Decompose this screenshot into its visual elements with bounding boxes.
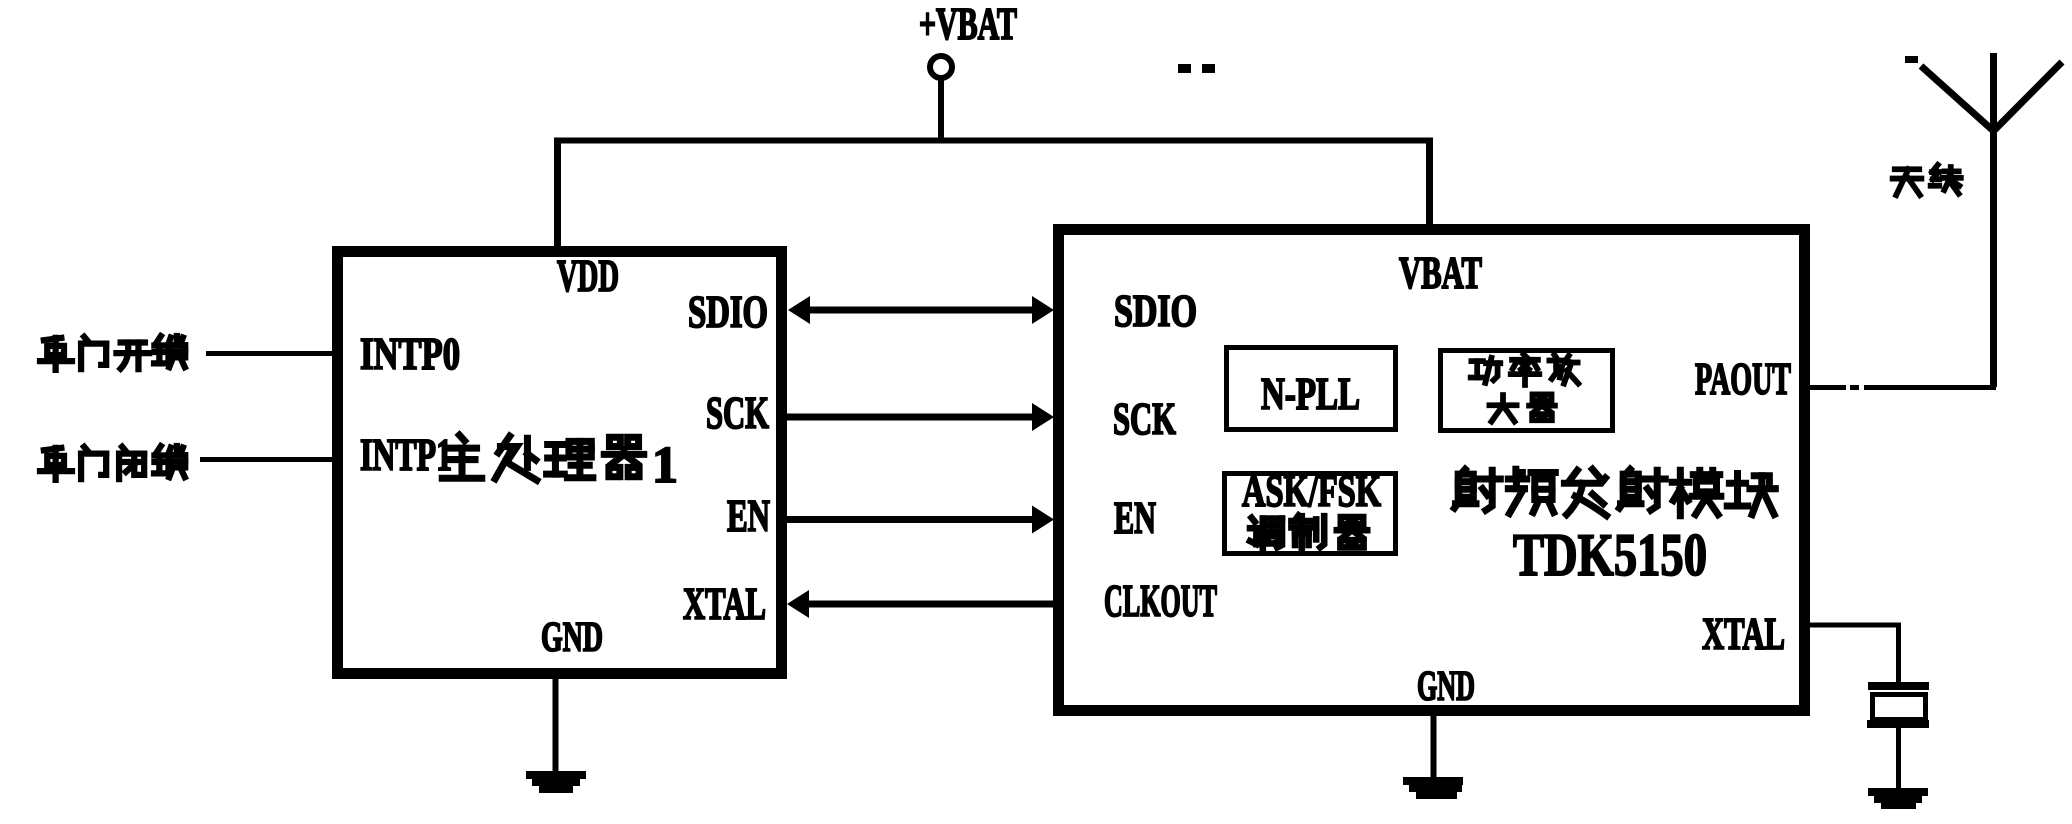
svg-text:+VBAT: +VBAT	[919, 0, 1017, 49]
label 功率放 power amp line1	[1471, 354, 1579, 385]
svg-text:TDK5150: TDK5150	[1513, 522, 1707, 588]
svg-text:PAOUT: PAOUT	[1695, 354, 1791, 404]
block N-PLL box	[1227, 348, 1396, 430]
svg-text:SDIO: SDIO	[1114, 286, 1197, 336]
svg-text:N-PLL: N-PLL	[1261, 369, 1360, 419]
svg-text:SDIO: SDIO	[688, 287, 768, 337]
wire XTAL to crystal	[1810, 623, 1901, 628]
svg-text:EN: EN	[1114, 493, 1156, 543]
svg-text:GND: GND	[1417, 664, 1475, 710]
svg-text:ASK/FSK: ASK/FSK	[1242, 466, 1381, 516]
wire CLKOUT to XTAL arrow	[787, 590, 1053, 618]
label 车门开锁 door unlock	[40, 336, 185, 370]
ground for right box	[1403, 777, 1463, 799]
wire bus right drop to VBAT pin	[1426, 138, 1433, 229]
wire GND left box	[553, 679, 559, 772]
block power amplifier box 功率放大器	[1441, 351, 1613, 431]
wire bus left drop to VDD pin	[554, 138, 561, 250]
title 射频发射模块 RF transmit module	[1454, 469, 1775, 515]
svg-text:XTAL: XTAL	[1702, 609, 1785, 659]
svg-text:GND: GND	[541, 615, 603, 661]
bus SDIO bidirectional arrow	[788, 296, 1054, 324]
wire SCK arrow	[787, 403, 1054, 431]
artifact dashes	[1178, 64, 1191, 73]
svg-text:SCK: SCK	[706, 388, 769, 438]
svg-text:SCK: SCK	[1113, 394, 1176, 444]
artifact dash near antenna	[1905, 56, 1918, 63]
wire door unlock to INTP0	[206, 351, 332, 356]
svg-text:VBAT: VBAT	[1399, 248, 1482, 298]
wire GND right box	[1431, 716, 1437, 778]
svg-text:INTP1: INTP1	[360, 430, 452, 480]
svg-text:EN: EN	[727, 491, 770, 541]
wire PAOUT to antenna	[1810, 385, 1846, 390]
block ASK/FSK modulator box	[1225, 474, 1396, 554]
wire VBAT horizontal bus	[554, 138, 1433, 144]
label 天线 antenna	[1893, 169, 1922, 195]
label 调制器 modulator	[1250, 515, 1367, 549]
module U1 main processor box 主处理器1	[338, 252, 782, 674]
module U2 RF transmit module TDK5150 box	[1059, 230, 1805, 711]
crystal Y1	[1867, 682, 1929, 728]
ground for left box	[526, 771, 586, 793]
svg-text:XTAL: XTAL	[683, 579, 766, 629]
svg-text:INTP0: INTP0	[360, 329, 460, 379]
antenna ANT	[1921, 53, 2062, 387]
wire +VBAT vertical drop	[938, 78, 944, 143]
svg-text:VDD: VDD	[557, 251, 619, 301]
svg-text:CLKOUT: CLKOUT	[1104, 576, 1217, 626]
title 主处理器1 main processor 1	[442, 435, 678, 494]
wire door lock to INTP1	[200, 457, 332, 462]
wire crystal to ground	[1896, 728, 1901, 789]
ground for crystal	[1868, 788, 1928, 809]
label 大器 power amp line2	[1489, 394, 1555, 421]
wire EN arrow	[787, 506, 1054, 534]
svg-text:1: 1	[652, 437, 678, 494]
label 车门闭锁 door lock	[40, 446, 185, 480]
terminal +VBAT circle	[930, 56, 952, 78]
